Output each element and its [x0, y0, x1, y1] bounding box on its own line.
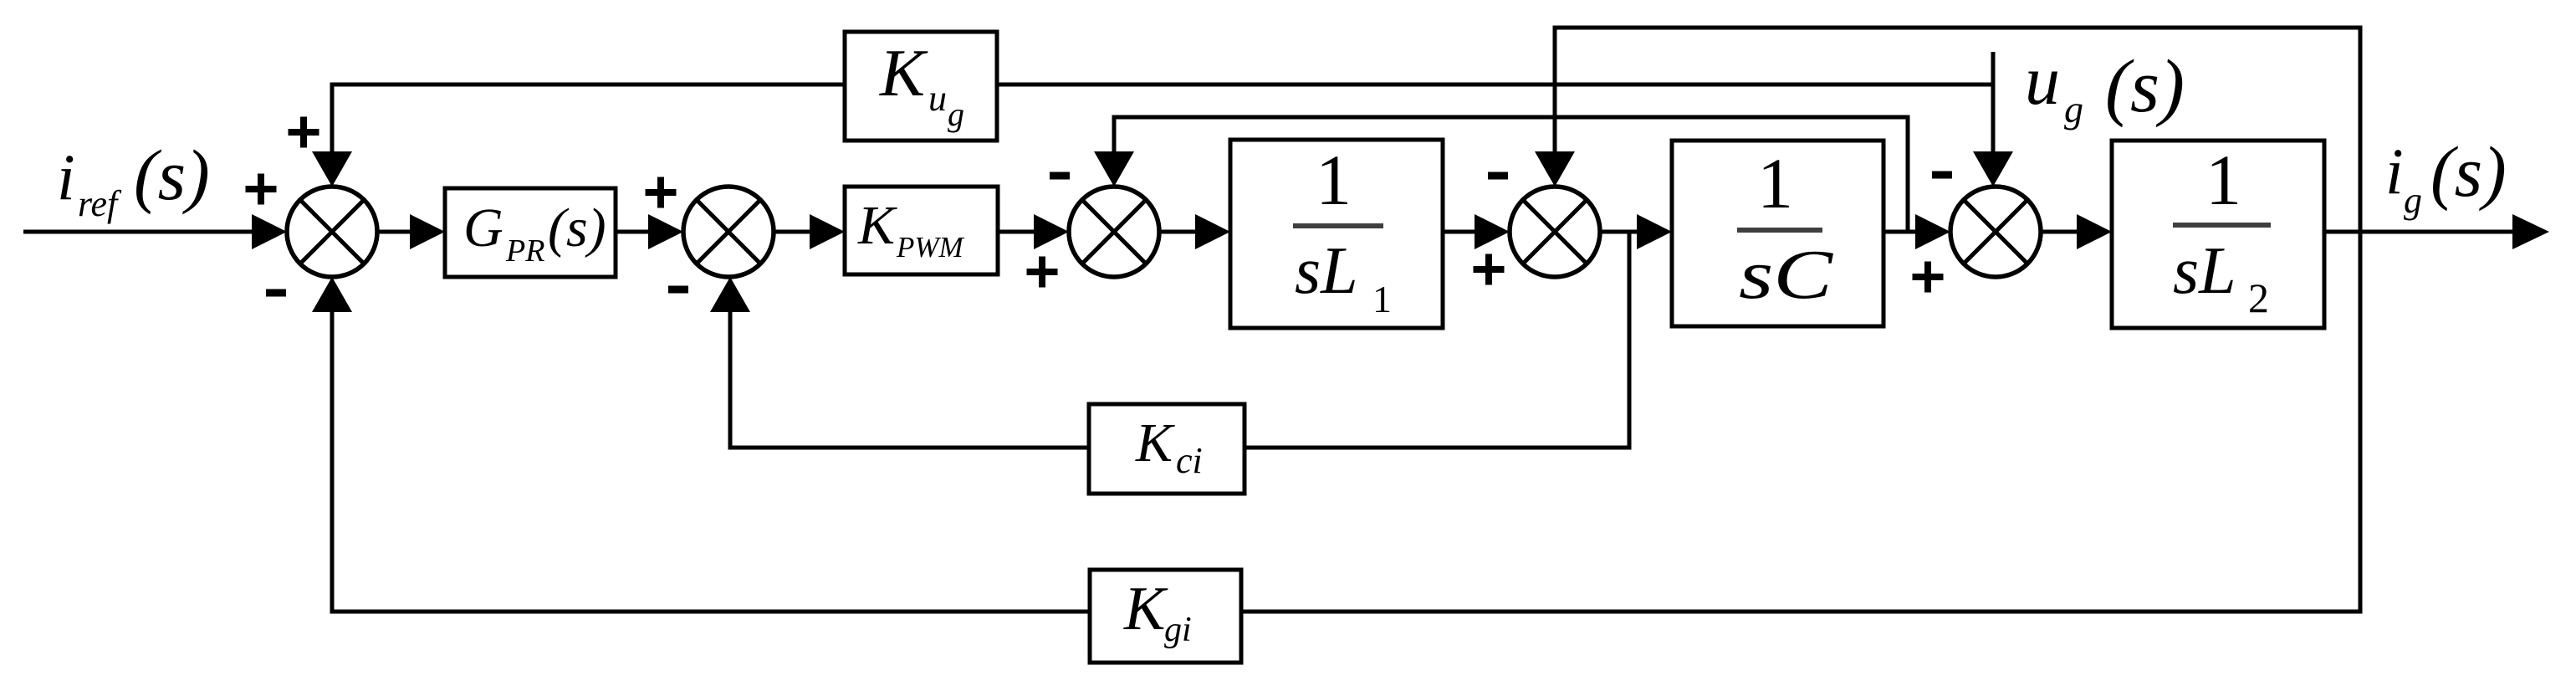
- wire: u_g input stub into S5: [1973, 52, 2013, 187]
- svg-text:sL: sL: [1295, 234, 1358, 308]
- svg-text:PR: PR: [505, 233, 544, 269]
- minus sign at summer S2 bottom input: [668, 286, 688, 294]
- block K_gi: [1090, 570, 1241, 663]
- wire: capacitor current tap down to K_ci: [1245, 232, 1629, 448]
- wire: S3 to block 1/sL1: [1159, 214, 1230, 249]
- summer S3: [1069, 187, 1159, 277]
- svg-text:(s): (s): [2430, 131, 2507, 212]
- svg-text:gi: gi: [1164, 611, 1192, 649]
- wire: 1/sC to S5: [1883, 214, 1950, 249]
- svg-text:PWM: PWM: [896, 231, 965, 264]
- wire: G_PR to S2: [616, 214, 683, 249]
- minus sign at summer S5 top input: [1932, 172, 1952, 179]
- summer S4: [1510, 187, 1600, 277]
- svg-text:g: g: [948, 95, 964, 133]
- block 1/sL2: [2112, 140, 2324, 328]
- svg-text:(s): (s): [134, 135, 210, 215]
- svg-text:(s): (s): [2105, 45, 2185, 128]
- block K_PWM: [845, 187, 998, 274]
- svg-text:sC: sC: [1739, 236, 1833, 314]
- plus sign at summer S5 left input: [1913, 262, 1944, 293]
- block 1/sC: [1672, 141, 1883, 326]
- node label i_g(s): [2385, 131, 2507, 221]
- plus sign at summer S2 left input: [646, 177, 677, 208]
- svg-text:ci: ci: [1176, 440, 1203, 481]
- svg-text:(s): (s): [548, 197, 606, 259]
- plus sign at summer S1 top input: [289, 117, 319, 148]
- minus sign at summer S1 bottom input: [266, 289, 286, 297]
- svg-text:2: 2: [2248, 274, 2269, 321]
- svg-text:K: K: [857, 195, 897, 256]
- plus sign at summer S1 left input: [246, 174, 277, 205]
- summer S2: [683, 187, 774, 277]
- wire: S4 to block 1/sC: [1600, 214, 1672, 249]
- wire: K_gi output to S1 bottom: [312, 277, 1090, 612]
- svg-text:g: g: [2404, 180, 2422, 221]
- minus sign at summer S4 top input: [1488, 172, 1508, 180]
- wire: i_ref input line: [23, 214, 287, 249]
- wire: S5 to block 1/sL2: [2041, 214, 2112, 249]
- svg-text:i: i: [2385, 135, 2404, 207]
- block G_PR(s): [445, 188, 616, 277]
- wire: i_g tap over the top into S4: [1535, 28, 2360, 232]
- plus sign at summer S3 left input: [1027, 257, 1058, 288]
- node label u_g(s): [2025, 42, 2185, 131]
- svg-text:g: g: [2064, 88, 2083, 131]
- wire: i_g tap down to K_gi: [1241, 232, 2360, 612]
- svg-text:1: 1: [1316, 140, 1352, 220]
- svg-text:G: G: [463, 197, 503, 259]
- svg-text:1: 1: [2205, 140, 2241, 220]
- plus sign at summer S4 left input: [1474, 254, 1505, 285]
- svg-text:K: K: [879, 35, 928, 110]
- summer S5: [1950, 187, 2041, 277]
- summer S1: [287, 187, 377, 277]
- block K_ug: [845, 32, 997, 141]
- wire: S2 to K_PWM: [774, 214, 845, 249]
- svg-text:K: K: [1135, 412, 1175, 474]
- svg-text:u: u: [2025, 42, 2060, 120]
- wire: K_PWM to S3: [998, 214, 1069, 249]
- wire: output line with i_g arrow: [2324, 214, 2549, 249]
- svg-text:sL: sL: [2173, 234, 2236, 308]
- svg-text:1: 1: [1372, 278, 1392, 320]
- wire: K_ug output to S1 top: [312, 84, 845, 187]
- svg-text:u: u: [928, 78, 947, 119]
- wire: 1/sL1 to S4: [1443, 214, 1510, 249]
- svg-text:i: i: [57, 141, 75, 213]
- block 1/sL1: [1230, 140, 1443, 328]
- wire: K_ci output to S2 bottom: [710, 277, 1089, 448]
- block K_ci: [1089, 404, 1245, 494]
- wire: S1 to G_PR: [376, 214, 445, 249]
- svg-text:ref: ref: [78, 183, 122, 224]
- minus sign at summer S3 top input: [1050, 172, 1070, 180]
- node label i_ref(s): [57, 135, 210, 224]
- svg-text:K: K: [1123, 575, 1168, 643]
- wire: u_g tap to K_ug (right segment): [997, 83, 1995, 87]
- wire: capacitor voltage tap to S3 top: [1094, 117, 1908, 232]
- svg-text:1: 1: [1757, 143, 1793, 223]
